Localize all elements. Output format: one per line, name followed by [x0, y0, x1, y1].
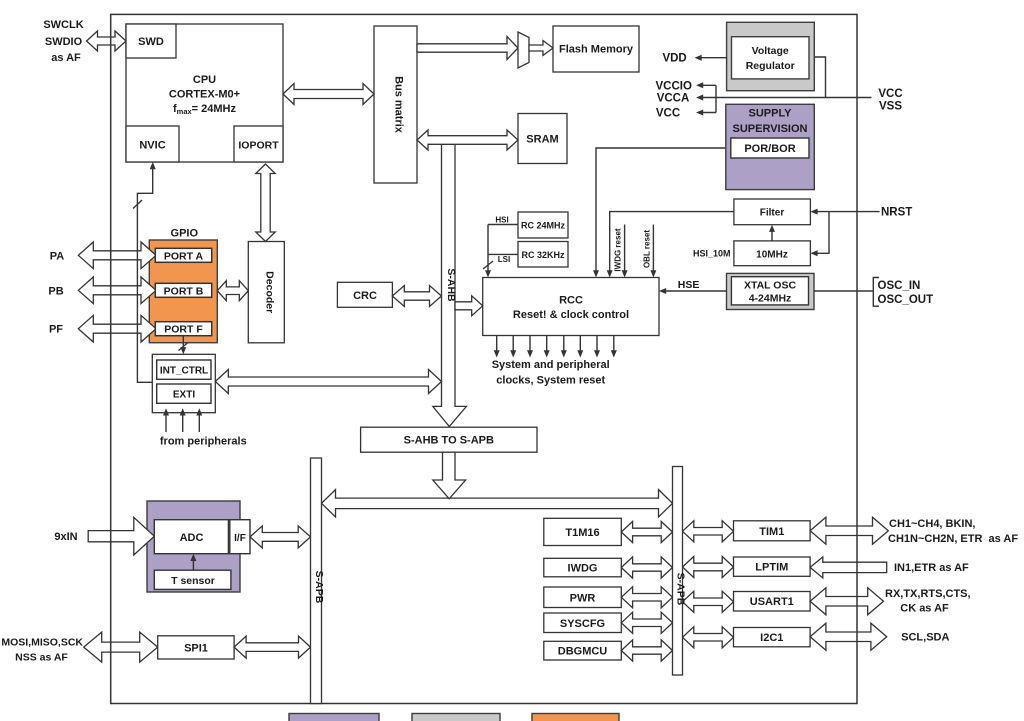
- svg-text:System and peripheral: System and peripheral: [492, 359, 610, 371]
- svg-text:NVIC: NVIC: [139, 140, 165, 152]
- svg-text:RX,TX,RTS,CTS,: RX,TX,RTS,CTS,: [885, 588, 971, 600]
- svg-text:VCCA: VCCA: [657, 93, 690, 105]
- box CPU CORTEX-M0+: [126, 24, 283, 162]
- arrow PWR to S-APB: [621, 587, 672, 608]
- svg-text:USART1: USART1: [750, 596, 794, 608]
- arrow S-AHB to RCC: [455, 296, 483, 316]
- box GPIO group (orange): [149, 240, 217, 343]
- svg-text:Bus matrix: Bus matrix: [393, 76, 405, 134]
- box DBGMCU: [544, 641, 622, 660]
- svg-text:T sensor: T sensor: [171, 575, 215, 587]
- arrow S-APB to TIM1: [683, 521, 734, 542]
- svg-text:XTAL OSC: XTAL OSC: [744, 280, 797, 292]
- svg-text:HSI: HSI: [495, 216, 508, 225]
- svg-text:IWDG reset: IWDG reset: [614, 228, 623, 271]
- box IOPORT: [234, 126, 283, 162]
- wire NVIC interrupt line with bus slash: [137, 165, 152, 382]
- box SPI1: [158, 636, 234, 659]
- svg-text:Voltage: Voltage: [752, 45, 789, 57]
- svg-text:S-APB: S-APB: [313, 571, 325, 604]
- svg-text:I2C1: I2C1: [760, 632, 783, 644]
- box SWD: [126, 24, 176, 58]
- svg-text:RC 32KHz: RC 32KHz: [521, 250, 565, 260]
- svg-text:PF: PF: [49, 324, 63, 336]
- legend orange box: [532, 714, 619, 721]
- arrow S-APB to USART1: [683, 591, 734, 612]
- wire VCC group connector: [715, 85, 717, 112]
- arrow RCC clock output 5: [563, 336, 565, 353]
- svg-text:PORT F: PORT F: [164, 324, 203, 336]
- svg-text:NSS as AF: NSS as AF: [15, 651, 68, 663]
- svg-text:clocks, System reset: clocks, System reset: [496, 375, 605, 387]
- box Voltage Regulator inner: [732, 37, 810, 79]
- box Bus matrix: [374, 26, 417, 183]
- arrow GPIO to Decoder: [217, 281, 248, 301]
- box USART1: [734, 592, 811, 612]
- arrow Bus matrix to SRAM: [417, 130, 518, 150]
- box NVIC: [126, 126, 179, 162]
- box INT_CTRL: [157, 360, 211, 379]
- box INT_CTRL EXTI group: [152, 354, 215, 412]
- box 10MHz: [734, 241, 811, 266]
- wire PORT F to INT_CTRL with slash: [182, 336, 184, 351]
- wire NRST filter to RCC: [610, 212, 734, 273]
- arrow PA port: [78, 242, 156, 269]
- box POR/BOR: [731, 138, 809, 158]
- svg-text:Regulator: Regulator: [746, 60, 795, 72]
- svg-text:RCC: RCC: [559, 295, 583, 307]
- bus S-APB right bar: [673, 467, 683, 676]
- svg-text:LSI: LSI: [498, 255, 510, 264]
- arrow IWDG to S-APB: [621, 557, 672, 578]
- svg-text:S-APB: S-APB: [675, 573, 687, 606]
- wire VCCIO arrow: [700, 84, 717, 86]
- wire LSI to RC 32KHz: [488, 253, 518, 255]
- bus S-AHB vertical bar with down arrowhead: [433, 137, 467, 427]
- arrow RCC clock output 3: [529, 336, 531, 353]
- arrow USART1 pins: [810, 588, 883, 615]
- svg-text:CH1N~CH2N, ETR as AF: CH1N~CH2N, ETR as AF: [888, 533, 1018, 545]
- arrow LPTIM pins: [810, 557, 887, 578]
- arrow EXTI to S-AHB: [215, 370, 441, 394]
- arrow I2C1 pins: [810, 623, 887, 650]
- box Flash Memory: [553, 26, 639, 72]
- legend gray box: [412, 714, 500, 721]
- wire XTAL to OSC pins: [814, 290, 873, 292]
- svg-text:CK as AF: CK as AF: [900, 602, 949, 614]
- svg-text:PWR: PWR: [570, 592, 596, 604]
- box Decoder: [248, 242, 284, 343]
- svg-text:SRAM: SRAM: [526, 134, 558, 146]
- svg-text:PORT B: PORT B: [164, 285, 204, 297]
- svg-text:IOPORT: IOPORT: [238, 140, 279, 152]
- svg-text:GPIO: GPIO: [171, 228, 199, 240]
- svg-text:VSS: VSS: [879, 100, 902, 112]
- arrow RCC clock output 2: [512, 336, 514, 353]
- svg-text:VCC: VCC: [878, 88, 902, 100]
- box Filter: [734, 199, 811, 225]
- arrow from peripherals 3: [198, 414, 200, 432]
- svg-text:NRST: NRST: [881, 207, 912, 219]
- svg-text:HSI_10M: HSI_10M: [693, 248, 731, 258]
- arrow CRC to S-AHB: [392, 286, 441, 307]
- arrow CPU to Bus matrix: [283, 84, 374, 105]
- wire HSI/LSI down to RCC with slash: [487, 225, 489, 273]
- arrow SYSCFG to S-APB: [621, 612, 672, 633]
- arrow RCC clock output 7: [596, 336, 598, 353]
- box CRC: [337, 282, 392, 307]
- svg-text:RC 24MHz: RC 24MHz: [521, 221, 566, 231]
- svg-text:Flash Memory: Flash Memory: [559, 44, 634, 56]
- svg-text:OBL reset: OBL reset: [643, 230, 652, 268]
- svg-text:Decoder: Decoder: [263, 271, 275, 313]
- arrow PB port: [78, 277, 156, 304]
- box RCC: [483, 278, 659, 336]
- arrow SPI1 pins: [84, 632, 158, 662]
- box EXTI: [157, 384, 211, 403]
- box T sensor: [154, 570, 231, 589]
- svg-text:CH1~CH4, BKIN,: CH1~CH4, BKIN,: [889, 518, 976, 530]
- svg-text:SUPERVISION: SUPERVISION: [733, 123, 808, 135]
- svg-text:SWD: SWD: [138, 36, 164, 48]
- svg-text:OSC_OUT: OSC_OUT: [878, 294, 934, 306]
- arrow from peripherals 2: [182, 414, 184, 432]
- arrow IOPORT to Decoder: [256, 164, 275, 242]
- box TIM1: [734, 521, 811, 541]
- svg-text:INT_CTRL: INT_CTRL: [160, 366, 208, 377]
- bus bridge down arrow: [433, 452, 466, 499]
- wire regulator elbow to VCC line: [814, 57, 825, 98]
- arrow TIM1 pins: [810, 517, 888, 544]
- svg-text:ADC: ADC: [180, 532, 204, 544]
- svg-text:PB: PB: [48, 285, 63, 297]
- arrow I/F to S-APB: [250, 526, 311, 548]
- arrow S-APB to I2C1: [683, 627, 734, 648]
- arrow SPI1 to S-APB: [234, 636, 310, 658]
- arrow SWD debug port: [87, 31, 127, 51]
- wire POR/BOR to RCC: [596, 148, 731, 273]
- svg-text:Reset! & clock control: Reset! & clock control: [513, 309, 629, 321]
- svg-text:CRC: CRC: [353, 290, 377, 302]
- box SRAM: [518, 114, 567, 164]
- arrow RCC clock output 4: [546, 336, 548, 353]
- svg-text:POR/BOR: POR/BOR: [744, 143, 795, 155]
- svg-text:from peripherals: from peripherals: [160, 436, 247, 448]
- svg-text:CORTEX-M0+: CORTEX-M0+: [169, 89, 240, 101]
- box IWDG: [544, 558, 622, 577]
- arrow mux to Flash Memory: [529, 41, 553, 56]
- svg-text:SPI1: SPI1: [184, 642, 208, 654]
- svg-text:LPTIM: LPTIM: [755, 562, 788, 574]
- box RC 32KHz: [518, 242, 568, 268]
- wire VDD arrow: [698, 57, 727, 59]
- arrow from peripherals 1: [165, 414, 167, 432]
- svg-text:Filter: Filter: [760, 208, 785, 219]
- arrow T sensor to ADC: [192, 559, 194, 571]
- svg-text:EXTI: EXTI: [173, 390, 195, 401]
- svg-text:IWDG: IWDG: [568, 563, 598, 575]
- svg-text:9xIN: 9xIN: [54, 531, 77, 543]
- box PORT A: [155, 248, 211, 262]
- svg-text:PORT A: PORT A: [164, 250, 204, 262]
- svg-text:SWDIO: SWDIO: [45, 36, 83, 48]
- wire IWDG reset to RCC: [624, 225, 626, 273]
- mux trapezoid before Flash: [518, 32, 529, 68]
- arrow DBGMCU to S-APB: [621, 640, 672, 661]
- svg-text:S-AHB: S-AHB: [445, 268, 457, 302]
- svg-text:SWCLK: SWCLK: [43, 19, 83, 31]
- svg-text:CPU: CPU: [193, 74, 216, 86]
- wire NRST to Filter: [815, 211, 880, 213]
- outer boundary box of MCU: [111, 14, 857, 703]
- arrow 10MHz to Filter: [771, 229, 773, 241]
- wire NRST elbow to 10MHz: [816, 212, 829, 254]
- svg-text:as AF: as AF: [51, 52, 81, 64]
- box SUPPLY SUPERVISION (purple): [726, 104, 815, 189]
- box RC 24MHz: [518, 212, 568, 238]
- box T1M16: [544, 518, 622, 545]
- box ADC group (purple): [147, 501, 240, 592]
- bus S-APB left bar: [311, 458, 322, 704]
- legend purple box: [289, 714, 379, 721]
- box Voltage Regulator (gray): [727, 22, 815, 90]
- wire VCC arrow: [700, 112, 717, 114]
- svg-text:T1M16: T1M16: [565, 527, 599, 539]
- svg-text:HSE: HSE: [678, 279, 700, 291]
- wire OBL reset to RCC: [652, 225, 654, 273]
- box XTAL OSC inner: [731, 277, 808, 305]
- svg-text:IN1,ETR as AF: IN1,ETR as AF: [894, 562, 969, 574]
- box S-AHB TO S-APB: [361, 427, 537, 452]
- svg-text:DBGMCU: DBGMCU: [558, 646, 608, 658]
- box PORT B: [155, 283, 211, 297]
- wire VCCA arrow: [700, 97, 717, 99]
- box PORT F: [155, 322, 211, 336]
- svg-text:PA: PA: [50, 250, 65, 262]
- arrow S-APB to LPTIM: [683, 556, 734, 577]
- svg-text:TIM1: TIM1: [759, 526, 784, 538]
- wire HSI to RC 24MHz: [488, 224, 518, 226]
- svg-text:SYSCFG: SYSCFG: [560, 618, 605, 630]
- svg-text:I/F: I/F: [234, 533, 246, 544]
- arrow RCC clock output 1: [496, 336, 498, 353]
- svg-text:VCCIO: VCCIO: [655, 80, 691, 92]
- box ADC: [154, 520, 228, 554]
- wire VCC VSS supply line: [716, 97, 872, 99]
- arrow T1M16 to S-APB: [621, 521, 672, 542]
- box LPTIM: [734, 557, 811, 576]
- svg-text:VDD: VDD: [662, 53, 686, 65]
- box I2C1: [734, 628, 811, 647]
- svg-text:SCL,SDA: SCL,SDA: [901, 632, 949, 644]
- svg-text:4-24MHz: 4-24MHz: [749, 293, 792, 305]
- wire HSE XTAL to RCC: [664, 290, 727, 292]
- svg-text:10MHz: 10MHz: [756, 249, 788, 260]
- svg-text:VCC: VCC: [656, 108, 680, 120]
- box I/F: [230, 520, 250, 554]
- svg-text:OSC_IN: OSC_IN: [878, 280, 921, 292]
- svg-text:MOSI,MISO,SCK: MOSI,MISO,SCK: [1, 637, 83, 649]
- box SYSCFG: [544, 613, 622, 633]
- box XTAL OSC (gray): [727, 273, 815, 309]
- arrow RCC clock output 8: [613, 336, 615, 353]
- bracket OSC pins: [873, 278, 879, 307]
- arrow 9xIN to ADC: [88, 517, 154, 555]
- box PWR: [544, 587, 622, 608]
- arrow S-APB horizontal trunk: [322, 490, 673, 517]
- svg-text:SUPPLY: SUPPLY: [748, 108, 792, 120]
- svg-text:S-AHB TO S-APB: S-AHB TO S-APB: [404, 435, 494, 447]
- arrow RCC clock output 6: [579, 336, 581, 353]
- arrow PF port: [78, 315, 156, 342]
- arrow Bus matrix to flash mux: [417, 37, 518, 60]
